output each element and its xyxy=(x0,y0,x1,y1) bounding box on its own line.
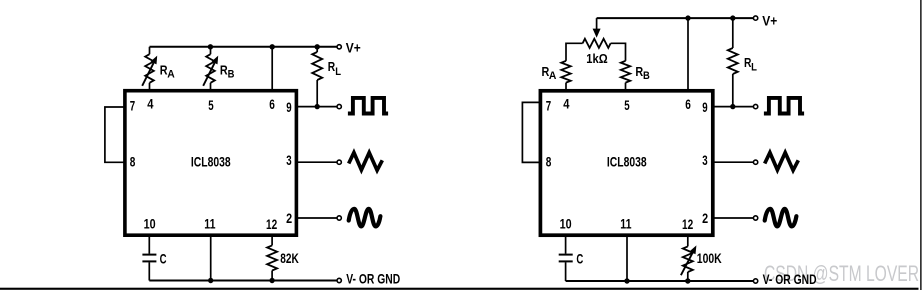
node pin3 terminal xyxy=(337,160,341,164)
wire pin9 output right xyxy=(711,106,753,108)
potentiometer wiper arrow xyxy=(596,18,598,29)
node V+ terminal left xyxy=(337,45,341,49)
svg-text:9: 9 xyxy=(286,99,292,115)
op-amp U1 ICL8038 IC body xyxy=(125,91,297,236)
wire pin3 output xyxy=(295,161,337,163)
node junction RL/pin9 right xyxy=(730,104,735,109)
wire pin11 to bottom rail right xyxy=(626,236,628,282)
square wave symbol left xyxy=(348,98,388,114)
svg-text:ICL8038: ICL8038 xyxy=(191,155,231,170)
triangle wave symbol right xyxy=(765,153,799,171)
potentiometer 1k body xyxy=(566,43,583,61)
svg-text:4: 4 xyxy=(147,95,153,111)
svg-text:A: A xyxy=(549,70,557,82)
wire pin9 output xyxy=(295,106,337,108)
svg-text:82K: 82K xyxy=(280,250,299,266)
wire pin2 output right xyxy=(711,217,753,219)
svg-text:12: 12 xyxy=(266,216,277,232)
wire pin11 to bottom rail xyxy=(210,236,212,281)
resistor RA left xyxy=(145,54,154,83)
svg-text:R: R xyxy=(220,63,228,77)
resistor RB left xyxy=(206,54,215,83)
resistor RL left xyxy=(316,47,318,52)
node junction RL/pin9 xyxy=(315,104,320,109)
svg-text:12: 12 xyxy=(682,216,693,232)
svg-text:100K: 100K xyxy=(697,250,722,266)
svg-text:7: 7 xyxy=(546,97,552,113)
capacitor C right xyxy=(565,236,567,254)
svg-text:2: 2 xyxy=(286,210,292,226)
svg-text:V- OR GND: V- OR GND xyxy=(346,270,400,286)
svg-text:5: 5 xyxy=(208,97,214,113)
svg-text:B: B xyxy=(228,68,235,80)
svg-text:8: 8 xyxy=(130,154,136,170)
wire pin2 output xyxy=(295,217,337,219)
svg-text:10: 10 xyxy=(144,216,156,232)
svg-text:C: C xyxy=(576,250,583,266)
resistor RA right xyxy=(561,61,570,83)
wire pins 7-8 external loop left xyxy=(105,107,125,162)
wire pins 7-8 external loop right xyxy=(522,102,540,162)
svg-text:C: C xyxy=(160,250,167,266)
resistor RB right xyxy=(621,61,630,83)
resistor 100K variable xyxy=(687,236,689,247)
node junction pin11/bottom rail xyxy=(208,278,213,283)
node pin2 terminal right xyxy=(753,216,757,220)
op-amp U2 ICL8038 IC body xyxy=(540,91,712,235)
wire pin5 riser xyxy=(210,47,212,54)
svg-text:V+: V+ xyxy=(762,13,777,29)
svg-text:ICL8038: ICL8038 xyxy=(607,155,647,170)
node junction 100K/bottom rail right xyxy=(685,278,690,283)
svg-text:2: 2 xyxy=(702,210,708,226)
svg-text:L: L xyxy=(751,62,757,74)
svg-text:4: 4 xyxy=(563,95,569,111)
svg-text:10: 10 xyxy=(560,216,572,232)
node pin9 terminal right xyxy=(753,104,757,108)
page bottom border xyxy=(0,288,919,290)
svg-text:8: 8 xyxy=(546,154,552,170)
wire V+ rail left circuit xyxy=(150,46,340,48)
svg-text:5: 5 xyxy=(624,97,630,113)
node V-/GND terminal left xyxy=(337,278,341,282)
square wave symbol right xyxy=(764,98,804,114)
node pin9 terminal xyxy=(337,104,341,108)
node junction RL/rail right xyxy=(730,15,735,20)
node junction pin6/rail right xyxy=(685,15,690,20)
svg-text:6: 6 xyxy=(685,96,691,112)
node V+ terminal right xyxy=(753,16,757,20)
svg-text:L: L xyxy=(335,66,341,78)
node V-/GND terminal right xyxy=(753,279,757,283)
svg-text:A: A xyxy=(167,68,175,80)
svg-text:6: 6 xyxy=(269,96,275,112)
node pin3 terminal right xyxy=(753,160,757,164)
svg-text:11: 11 xyxy=(204,216,215,232)
page right edge line xyxy=(920,0,922,290)
node junction 82K/bottom rail xyxy=(269,278,274,283)
svg-text:11: 11 xyxy=(620,216,631,232)
svg-text:R: R xyxy=(328,60,335,74)
sine wave symbol right xyxy=(765,209,797,227)
svg-text:3: 3 xyxy=(702,152,708,168)
triangle wave symbol left xyxy=(349,153,383,171)
wire pin3 output right xyxy=(711,161,753,163)
capacitor C left xyxy=(148,236,150,254)
wire V+ rail right circuit xyxy=(597,17,756,19)
node junction RL/rail xyxy=(315,44,320,49)
svg-text:9: 9 xyxy=(702,99,708,115)
wire pin6 riser xyxy=(271,47,273,92)
svg-text:V- OR GND: V- OR GND xyxy=(763,271,817,287)
svg-text:7: 7 xyxy=(130,97,136,113)
svg-text:3: 3 xyxy=(286,152,292,168)
node junction pin11/bottom rail right xyxy=(624,278,629,283)
node pin2 terminal xyxy=(337,216,341,220)
wire pin4 riser xyxy=(149,47,151,54)
svg-text:V+: V+ xyxy=(346,39,361,55)
wire pin6 riser right xyxy=(687,18,689,92)
node junction pin5/rail xyxy=(208,44,213,49)
resistor RL right xyxy=(732,18,734,48)
svg-text:B: B xyxy=(643,70,650,82)
wire bottom rail right (V- or GND net) xyxy=(566,280,754,282)
node junction pin6/rail xyxy=(270,44,275,49)
svg-text:1kΩ: 1kΩ xyxy=(586,51,607,66)
sine wave symbol left xyxy=(349,209,381,227)
resistor 82K xyxy=(271,236,273,246)
wire bottom rail left (V- or GND net) xyxy=(149,280,336,282)
